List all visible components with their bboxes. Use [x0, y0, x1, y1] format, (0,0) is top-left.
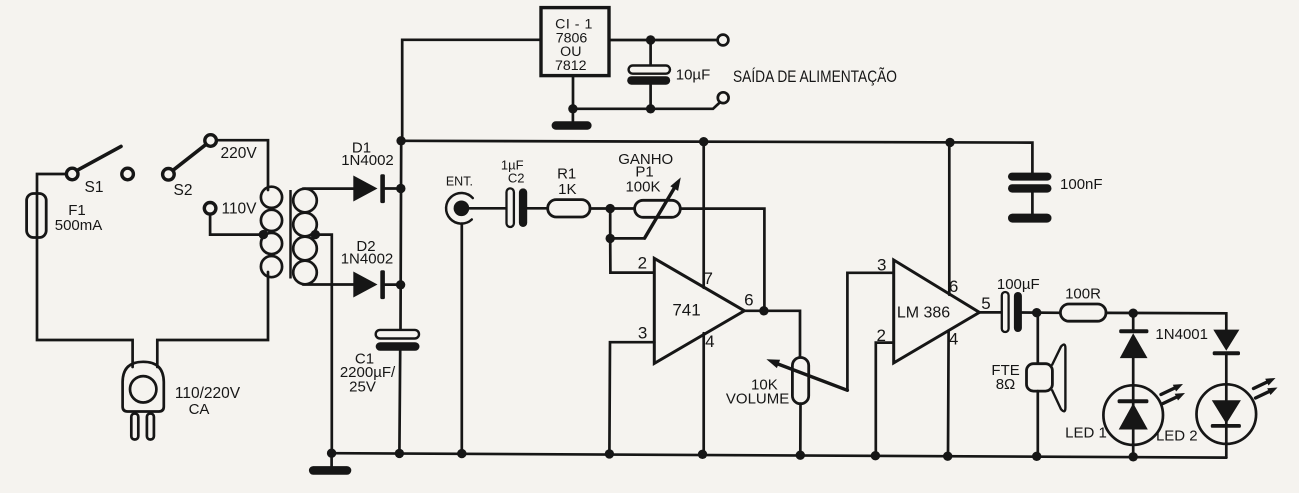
wire fuse to plug left lead — [37, 238, 133, 368]
svg-text:7812: 7812 — [555, 58, 587, 74]
node rail at CI-1 input branch — [396, 136, 405, 145]
wire 220V tap to primary top — [216, 140, 268, 190]
svg-text:R1: R1 — [557, 165, 576, 182]
resistor R1 — [548, 200, 590, 217]
svg-text:4: 4 — [949, 330, 958, 349]
diode D1 — [353, 174, 401, 203]
wire center tap to ground rail — [315, 235, 332, 454]
svg-text:100K: 100K — [625, 179, 660, 196]
wire volume wiper to LM386 pin 3 — [847, 273, 893, 391]
node D1 cathode on rail — [396, 184, 405, 193]
wire output bottom to negative terminal — [573, 103, 720, 109]
wire ENT to C2 — [469, 207, 506, 210]
wire CI-1 output — [609, 39, 718, 42]
ground at rail left end — [309, 453, 351, 475]
regulator CI-1 — [541, 8, 609, 76]
svg-text:100µF: 100µF — [997, 276, 1040, 293]
node rail C1 — [395, 449, 404, 458]
wire P1 wiper to inverting node — [610, 237, 644, 240]
svg-text:6: 6 — [744, 290, 753, 309]
capacitor 10uF — [627, 40, 670, 109]
node rail LED1 — [1129, 452, 1138, 461]
wire 741 pin 7 to +V rail — [702, 142, 705, 288]
svg-text:SAÍDA DE ALIMENTAÇÃO: SAÍDA DE ALIMENTAÇÃO — [733, 67, 897, 86]
svg-text:C2: C2 — [508, 170, 525, 185]
svg-text:VOLUME: VOLUME — [726, 390, 789, 407]
node rail speaker — [1032, 452, 1041, 461]
node rail center tap — [327, 449, 336, 458]
node rail ENT ground — [457, 449, 466, 458]
switch S2 — [122, 145, 206, 180]
svg-text:5: 5 — [981, 294, 990, 313]
amplifier U2 LM386 — [894, 260, 980, 363]
transformer core — [289, 190, 292, 279]
plug 110/220V CA — [123, 362, 164, 440]
wire R1 to P1 — [590, 207, 635, 210]
svg-text:LM 386: LM 386 — [897, 304, 950, 321]
wire diode to LED2 — [1225, 355, 1228, 457]
svg-text:25V: 25V — [349, 379, 376, 396]
terminal output negative — [718, 92, 729, 103]
diode D2 — [353, 270, 401, 299]
wire CI-1 input — [402, 40, 541, 140]
svg-text:100nF: 100nF — [1060, 176, 1103, 193]
terminal output positive — [718, 35, 729, 46]
node CI-1 ground pin — [568, 104, 577, 113]
node rail volume — [796, 451, 805, 460]
wire LM386 pin 4 to ground rail — [947, 331, 950, 456]
speaker FTE 8ohm — [1027, 345, 1066, 412]
terminal 110V tap — [204, 203, 216, 215]
wire rectifier rail vertical — [399, 141, 402, 330]
wire C2 to R1 — [527, 207, 548, 210]
wire +V top rail — [401, 141, 1032, 173]
svg-text:LED 2: LED 2 — [1156, 427, 1198, 444]
node primary tap — [259, 230, 268, 239]
svg-text:1K: 1K — [558, 181, 576, 198]
svg-text:ENT.: ENT. — [446, 175, 473, 189]
capacitor C2 — [507, 188, 528, 227]
svg-text:1N4002: 1N4002 — [341, 251, 394, 268]
wire speaker to ground rail — [1036, 391, 1039, 456]
wire ground rail bottom — [332, 453, 1227, 457]
node inverting input branch — [606, 234, 615, 243]
wire node to speaker — [1036, 313, 1039, 364]
node R1/P1/pin2 branch — [606, 204, 615, 213]
transformer secondary winding — [293, 189, 317, 285]
capacitor 100uF — [1002, 292, 1022, 332]
fuse F1 — [27, 194, 47, 238]
svg-text:S2: S2 — [174, 182, 193, 199]
node regulator output — [646, 35, 655, 44]
svg-text:110V: 110V — [221, 201, 257, 218]
diode 1N4001 left — [1119, 329, 1148, 358]
jack ENT. — [446, 193, 473, 224]
ground below CI-1 — [552, 109, 592, 130]
switch S1 — [66, 146, 121, 179]
node rail to 741 pin7 — [699, 137, 708, 146]
wire volume bottom to ground rail — [799, 404, 802, 456]
node 10uF bottom — [646, 104, 655, 113]
node rail 741 pin3 — [605, 449, 614, 458]
op-amp U1 741 — [654, 258, 744, 363]
capacitor 100nF — [1008, 173, 1052, 214]
wire 100uF to output node — [1022, 311, 1061, 314]
wire 741 pin 3 to ground rail — [609, 342, 654, 454]
wire plug right lead to transformer primary riser — [157, 272, 268, 367]
svg-text:10µF: 10µF — [676, 66, 711, 83]
wire 741 output to volume pot — [744, 311, 800, 358]
svg-text:2: 2 — [638, 254, 647, 273]
svg-text:110/220V: 110/220V — [175, 385, 241, 402]
wire CI-1 ground pin — [572, 76, 575, 109]
diode 1N4001 right — [1213, 330, 1240, 356]
wire ENT ground — [460, 224, 463, 454]
node D2 cathode on rail — [396, 280, 405, 289]
node 741 output — [759, 306, 768, 315]
svg-text:CA: CA — [189, 401, 210, 418]
transformer primary winding — [261, 187, 282, 278]
ground below 100nF — [1008, 214, 1052, 223]
node LED1 branch — [1129, 309, 1138, 318]
potentiometer 10K VOLUME — [766, 358, 847, 404]
wire P1 right to 741 output feedback — [680, 209, 764, 311]
svg-text:220V: 220V — [220, 145, 257, 162]
wire node to 741 pin 2 — [610, 209, 654, 273]
wire 741 pin 4 to ground rail — [702, 333, 705, 454]
capacitor C1 — [376, 330, 420, 351]
wire LM386 output pin 5 — [979, 311, 1001, 314]
node speaker branch — [1032, 308, 1041, 317]
wire node to 1N4001 left — [1132, 313, 1135, 329]
svg-text:741: 741 — [672, 301, 700, 320]
wire 110V tap to primary — [210, 214, 263, 235]
svg-text:3: 3 — [638, 323, 647, 342]
svg-text:LED 1: LED 1 — [1065, 425, 1107, 442]
svg-text:100R: 100R — [1065, 286, 1101, 303]
svg-text:4: 4 — [705, 332, 714, 351]
node rail LM386 pin4 — [943, 452, 952, 461]
svg-text:S1: S1 — [85, 179, 104, 196]
wire AC line from S1 to fuse F1 — [37, 174, 66, 194]
LED2 — [1197, 378, 1278, 444]
node rail to LM386 pin6 — [945, 138, 954, 147]
wire LM386 pin 2 to ground rail — [876, 343, 894, 456]
terminal 220V tap — [205, 135, 217, 147]
wire secondary bottom to D2 anode — [303, 283, 354, 286]
svg-text:3: 3 — [877, 256, 886, 275]
node rail LM386 pin2 — [871, 451, 880, 460]
potentiometer P1 — [635, 177, 681, 238]
wire LM386 pin 6 to +V rail — [948, 142, 951, 294]
wire secondary top to D1 anode — [303, 187, 354, 190]
svg-text:8Ω: 8Ω — [996, 376, 1016, 393]
resistor 100R — [1060, 304, 1106, 321]
LED1 — [1103, 384, 1185, 445]
wire 100R to LED branches — [1106, 313, 1226, 330]
node rail 741 pin4 — [698, 450, 707, 459]
svg-text:1N4002: 1N4002 — [341, 152, 394, 169]
svg-text:1N4001: 1N4001 — [1155, 326, 1208, 343]
svg-text:500mA: 500mA — [55, 217, 103, 234]
wire diode to LED1 and ground rail — [1132, 358, 1135, 457]
node secondary center tap — [311, 230, 320, 239]
